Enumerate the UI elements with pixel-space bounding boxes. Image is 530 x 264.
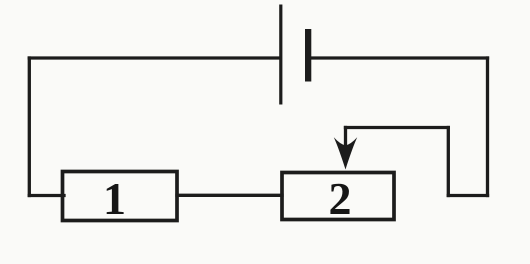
wire: wiper horizontal above rheostat	[346, 126, 449, 129]
wire: bottom right horizontal	[448, 194, 487, 197]
svg-text:2: 2	[329, 173, 352, 224]
wire: left vertical	[28, 58, 31, 196]
wire: top right horizontal from battery positive plate to right corner	[309, 56, 488, 59]
resistor box 1	[63, 172, 178, 221]
wiper arrowhead pointing down into box 2	[334, 137, 357, 169]
wire: wiper arrow stem	[344, 128, 347, 151]
svg-text:1: 1	[103, 173, 126, 224]
rheostat box 2	[282, 173, 394, 220]
wire: between box 1 and box 2	[177, 194, 282, 197]
wire: bottom left horizontal into box 1	[29, 194, 64, 197]
wire: wiper return vertical	[447, 128, 450, 196]
battery B1 short thick plate (positive terminal)	[305, 29, 311, 82]
wire: top left horizontal from battery negative plate to left corner	[29, 56, 280, 59]
battery B1 long thin plate (negative terminal line)	[279, 5, 282, 105]
wire: right vertical	[486, 58, 489, 196]
